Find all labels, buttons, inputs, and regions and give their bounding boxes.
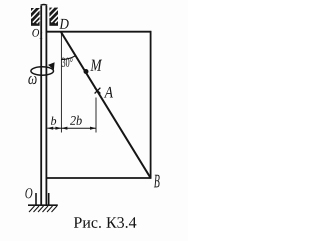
label B — [154, 175, 160, 188]
ground line — [28, 204, 58, 206]
bottom bearing left tick — [35, 193, 37, 205]
label 30deg — [62, 58, 73, 67]
bearing O1 right block — [49, 7, 58, 26]
omega rotation arrow — [31, 62, 55, 75]
label omega — [28, 76, 36, 84]
frame bottom line — [46, 177, 151, 179]
point A cross — [95, 88, 101, 94]
dimension line 2b with arrows — [61, 127, 96, 130]
point M dot — [84, 69, 89, 74]
label M — [90, 60, 102, 71]
extension line below D — [60, 33, 62, 133]
bottom bearing right tick — [48, 193, 50, 205]
label b — [51, 116, 56, 124]
label O1 — [32, 29, 42, 38]
label D — [59, 19, 68, 29]
caption — [74, 217, 136, 228]
label A — [104, 87, 113, 98]
extension line below A — [95, 98, 97, 133]
30 degree arc — [61, 56, 75, 60]
dimension line b with arrows — [47, 127, 61, 130]
bearing O1 left block — [31, 8, 40, 26]
rod DB — [61, 32, 151, 178]
label O — [25, 188, 32, 198]
label 2b — [70, 116, 82, 125]
ground hatching — [29, 206, 57, 212]
frame top line — [46, 31, 151, 33]
shaft — [41, 5, 48, 206]
frame right line — [150, 31, 152, 179]
